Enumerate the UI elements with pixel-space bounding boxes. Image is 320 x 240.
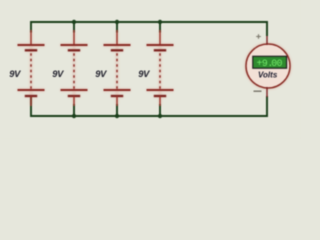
wire stub battery B3 bottom <box>116 104 118 116</box>
svg-text:Volts: Volts <box>258 71 278 80</box>
voltmeter display <box>253 56 287 68</box>
svg-text:+9: +9 <box>257 58 268 69</box>
battery B3 <box>104 30 131 106</box>
junction dot top B2 <box>72 20 76 24</box>
battery B1 <box>18 30 45 106</box>
voltmeter U1 body <box>246 44 290 88</box>
battery B4 <box>147 30 174 106</box>
svg-text:9V: 9V <box>138 69 150 79</box>
wire stub battery B2 top <box>73 22 75 33</box>
junction dot top B3 <box>115 20 119 24</box>
junction dot bottom B2 <box>72 114 76 118</box>
svg-text:9V: 9V <box>95 69 107 79</box>
wire stub battery B3 top <box>116 22 118 33</box>
junction dot bottom B4 <box>158 114 162 118</box>
voltmeter bottom pin <box>266 87 268 97</box>
junction dot bottom B3 <box>115 114 119 118</box>
wire stub battery B2 bottom <box>73 104 75 116</box>
svg-text:9V: 9V <box>52 69 64 79</box>
svg-text:9V: 9V <box>9 69 21 79</box>
wire bottom rail <box>31 96 267 116</box>
wire top rail <box>31 22 267 36</box>
wire stub battery B4 top <box>159 22 161 33</box>
minus terminal mark <box>254 90 262 92</box>
svg-text:00: 00 <box>271 58 282 69</box>
battery B2 <box>61 30 88 106</box>
plus terminal mark <box>256 34 261 39</box>
wire stub battery B4 bottom <box>159 104 161 116</box>
junction dot top B4 <box>158 20 162 24</box>
voltmeter top pin <box>266 36 268 45</box>
